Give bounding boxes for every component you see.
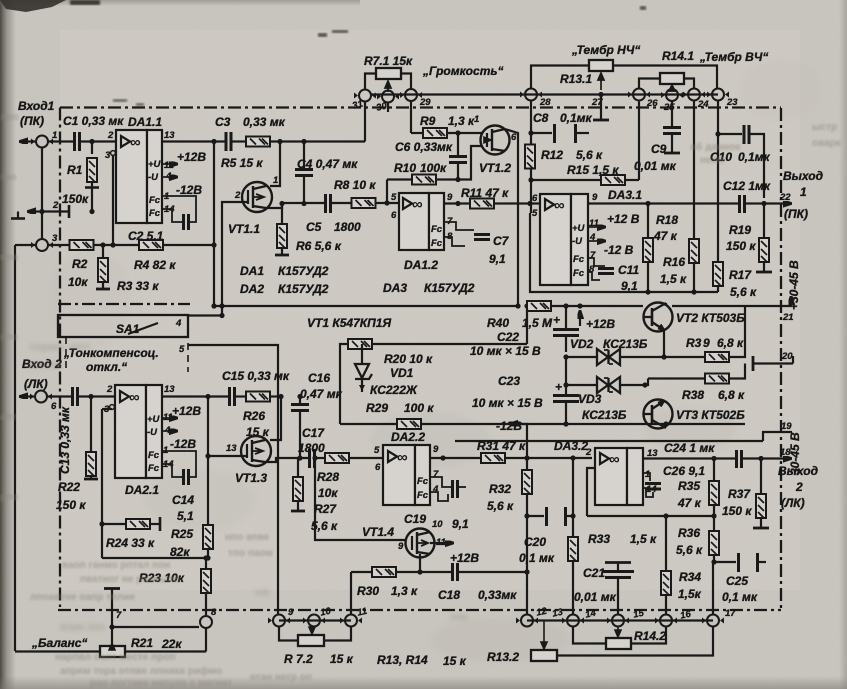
svg-text:C5: C5 <box>306 220 322 234</box>
svg-text:8: 8 <box>211 607 217 618</box>
dash-dot segment above SA1 <box>58 303 190 305</box>
svg-text:23: 23 <box>726 97 738 108</box>
capacitor C11 correction <box>588 258 639 293</box>
svg-text:6: 6 <box>375 462 381 473</box>
svg-text:0,47 мк: 0,47 мк <box>300 387 343 401</box>
svg-text:„Тембр ВЧ“: „Тембр ВЧ“ <box>699 50 768 64</box>
svg-text:2: 2 <box>106 384 113 395</box>
svg-text:R12: R12 <box>541 148 563 162</box>
svg-text:R14.2: R14.2 <box>634 629 666 643</box>
svg-text:К157УД2: К157УД2 <box>278 282 329 296</box>
svg-text:47 к: 47 к <box>677 496 702 510</box>
svg-text:R28: R28 <box>317 470 339 484</box>
wire VT2 emitter down <box>650 330 705 357</box>
svg-text:R14.1: R14.1 <box>662 49 694 63</box>
node R33 top <box>570 455 575 460</box>
terminal 19 <box>455 421 792 441</box>
capacitor C18 <box>438 563 517 602</box>
svg-text:5: 5 <box>374 445 380 456</box>
resistor R20 <box>348 339 433 366</box>
wire terminal30 stub <box>387 103 389 112</box>
svg-text:0,1мк: 0,1мк <box>738 150 771 164</box>
capacitor C9 <box>634 128 681 174</box>
svg-text:Fc: Fc <box>149 208 161 219</box>
node C8 tap <box>528 130 533 135</box>
wire DA2.2 out row <box>430 457 592 459</box>
svg-text:C22: C22 <box>497 330 519 344</box>
resistor R4 <box>134 240 176 272</box>
svg-text:2: 2 <box>234 190 241 201</box>
terminal 7 stub <box>104 589 199 644</box>
svg-text:C20: C20 <box>524 535 546 549</box>
svg-text:6: 6 <box>511 132 517 143</box>
node DA3.1 input <box>527 201 532 206</box>
wire VT1.3 drain drop <box>270 397 281 441</box>
svg-text:рло: рло <box>0 492 18 503</box>
wire left rail down to balance <box>14 245 16 651</box>
node R32 top <box>524 455 529 460</box>
op-amp DA3.2 <box>585 447 658 505</box>
resistor R12 <box>525 145 603 169</box>
wire balance row <box>15 629 206 652</box>
tone control network: C8 column <box>530 101 532 213</box>
node R35 top <box>711 456 716 461</box>
svg-text:6: 6 <box>51 401 57 412</box>
svg-text:10к: 10к <box>68 275 88 289</box>
dash-dot enclosure top edge <box>58 108 781 611</box>
svg-text:22к: 22к <box>161 637 182 651</box>
resistor R6 <box>275 203 342 255</box>
svg-text:R16: R16 <box>663 255 685 269</box>
svg-text:1: 1 <box>52 130 57 141</box>
svg-text:Выход: Выход <box>778 464 818 478</box>
svg-text:DA3.1: DA3.1 <box>608 188 642 202</box>
svg-text:C11: C11 <box>618 263 639 277</box>
svg-text:R20 10 к: R20 10 к <box>384 352 433 366</box>
svg-text:0,1 мк: 0,1 мк <box>722 590 758 604</box>
svg-text:5: 5 <box>532 208 538 219</box>
svg-text:VT2 КТ503Б: VT2 КТ503Б <box>676 311 745 325</box>
svg-text:R9: R9 <box>420 114 436 128</box>
svg-text:VD1: VD1 <box>390 366 414 380</box>
svg-text:апрем тора отпве лпника рифмо: апрем тора отпве лпника рифмо <box>60 665 222 677</box>
svg-text:Fc: Fc <box>148 450 160 461</box>
potentiometer R7.2 <box>284 627 354 666</box>
wire feedback bottom rail <box>102 557 206 559</box>
svg-text:нелп: нелп <box>700 155 724 166</box>
wire terminal24 column to R16 <box>693 102 695 240</box>
wire R34 column <box>665 516 667 571</box>
svg-text:К157УД2: К157УД2 <box>424 281 475 295</box>
wire C18 row <box>351 572 526 614</box>
svg-text:апт: апт <box>0 412 17 423</box>
wire terminal23 column to R17 <box>717 101 719 263</box>
resistor R34 <box>661 570 702 614</box>
svg-text:5,1: 5,1 <box>177 509 194 523</box>
wire R10 row <box>387 180 458 204</box>
svg-text:„Громкость“: „Громкость“ <box>422 64 503 78</box>
svg-text:15 к: 15 к <box>443 654 467 668</box>
wire bottom connector row <box>279 619 351 621</box>
svg-text:7: 7 <box>590 250 596 261</box>
terminal 11 <box>340 606 368 627</box>
transistor VT2 <box>643 303 745 332</box>
svg-text:R4 82 к: R4 82 к <box>134 258 176 272</box>
svg-text:VD2: VD2 <box>570 337 594 351</box>
svg-text:R6 5,6 к: R6 5,6 к <box>296 239 342 253</box>
svg-text:150 к: 150 к <box>726 239 756 253</box>
transistor VT1.4 <box>362 519 446 558</box>
svg-text:-12В: -12В <box>176 183 202 197</box>
svg-text:R18: R18 <box>656 213 678 227</box>
node DA2.2 out <box>440 455 445 460</box>
svg-text:+U: +U <box>148 159 162 170</box>
svg-text:3: 3 <box>52 233 58 244</box>
svg-text:2: 2 <box>795 480 803 494</box>
svg-text:-U: -U <box>572 236 583 247</box>
svg-text:впа: впа <box>0 252 18 263</box>
svg-text:R26: R26 <box>243 409 265 423</box>
resistor R40 <box>487 301 553 330</box>
node R26 out <box>278 394 283 399</box>
svg-text:∞: ∞ <box>412 196 423 213</box>
svg-text:1: 1 <box>474 114 479 125</box>
wire DA3.2 output row <box>643 457 762 459</box>
terminal 3 <box>31 233 58 251</box>
svg-text:1: 1 <box>273 175 278 186</box>
terminal 28 <box>520 89 551 109</box>
svg-text:Fc: Fc <box>417 476 429 487</box>
svg-text:SA1: SA1 <box>116 322 140 336</box>
svg-text:+12В: +12В <box>450 551 479 565</box>
svg-text:4: 4 <box>175 318 182 329</box>
capacitor C25 <box>714 553 766 604</box>
svg-text:9: 9 <box>703 336 710 350</box>
page scan marks top-left <box>0 0 66 12</box>
capacitor C15 <box>222 369 290 406</box>
wire DA1.1 pin3 column <box>112 155 114 245</box>
svg-text:17: 17 <box>725 608 736 619</box>
svg-text:+: + <box>555 380 562 394</box>
svg-text:-U: -U <box>148 172 159 183</box>
potentiometer R14.2 <box>606 627 666 649</box>
node R9-C6 <box>455 130 460 135</box>
capacitor C22 polarized <box>470 306 579 358</box>
node C25 left <box>711 559 716 564</box>
op-amp DA2.1 <box>104 384 175 497</box>
svg-text:DA2.1: DA2.1 <box>125 483 159 497</box>
resistor R35 <box>677 459 719 517</box>
svg-text:0,01 мк: 0,01 мк <box>574 590 617 604</box>
output 1 terminal 22 <box>764 169 823 221</box>
svg-text:6: 6 <box>532 193 538 204</box>
svg-text:0,33 мк: 0,33 мк <box>243 115 286 129</box>
paper stains (decorative) <box>50 60 820 662</box>
output 2 terminal 18 <box>761 447 818 510</box>
svg-text:0,33мк: 0,33мк <box>478 588 517 602</box>
terminal 13 <box>551 607 584 627</box>
svg-text:DA1.2: DA1.2 <box>404 258 438 272</box>
svg-text:DA3: DA3 <box>383 281 407 295</box>
node DA2.1 out R25 <box>205 394 210 399</box>
svg-text:1800: 1800 <box>298 441 325 455</box>
terminal 9 <box>268 607 294 627</box>
node C13-R22 <box>88 394 93 399</box>
wire R32 column down to C18 row and terminal 12 <box>526 516 528 572</box>
svg-text:об данное: об данное <box>690 141 741 153</box>
svg-text:22: 22 <box>779 192 791 203</box>
svg-text:R10: R10 <box>394 161 416 175</box>
wire input2 signal row <box>48 395 116 397</box>
dash-dot enclosure bottom edge <box>58 609 781 611</box>
terminal 16 <box>679 609 724 627</box>
svg-text:+12В: +12В <box>586 317 615 331</box>
input 2 connector group <box>21 357 62 412</box>
op-amp DA2.2 <box>374 430 439 505</box>
wire R13.1 left leg <box>531 66 589 89</box>
capacitor C10 <box>710 125 771 198</box>
svg-text:28: 28 <box>539 97 551 108</box>
svg-text:R15 1,5 к: R15 1,5 к <box>567 163 619 177</box>
svg-text:(ЛК): (ЛК) <box>24 377 48 391</box>
resistor R33 <box>568 532 657 614</box>
svg-text:∞: ∞ <box>397 449 408 466</box>
potentiometer R13.1 <box>560 60 613 90</box>
svg-text:100к: 100к <box>420 161 447 175</box>
svg-text:DA2.2: DA2.2 <box>391 430 425 444</box>
svg-text:47 к: 47 к <box>653 229 678 243</box>
svg-text:DA1: DA1 <box>240 264 264 278</box>
svg-text:21: 21 <box>782 312 794 323</box>
svg-text:∞: ∞ <box>129 389 140 406</box>
wire DA2.1 pin3 column <box>101 409 103 558</box>
svg-text:9,1: 9,1 <box>452 517 469 531</box>
svg-text:9: 9 <box>447 192 453 203</box>
svg-text:C21: C21 <box>583 566 605 580</box>
terminal 29 <box>400 89 431 108</box>
svg-text:1800: 1800 <box>334 220 361 234</box>
wire DA3.1 output row <box>588 202 762 204</box>
node C6 bottom <box>455 177 460 182</box>
svg-text:Вход1: Вход1 <box>18 99 55 113</box>
node DA3.1 out <box>645 201 650 206</box>
capacitor C17 <box>298 426 325 468</box>
svg-text:C12 1мк: C12 1мк <box>723 179 771 193</box>
svg-text:1,3 к: 1,3 к <box>391 584 418 598</box>
svg-text:Fc: Fc <box>573 268 585 279</box>
wire VT1.2 drain to +12 rail <box>505 129 518 306</box>
wire DA3.1 input loop <box>530 213 648 292</box>
svg-text:R22: R22 <box>58 480 80 494</box>
svg-text:гро: гро <box>0 172 16 183</box>
wire R13.2 right leg <box>557 627 713 656</box>
resistor R24 <box>106 519 155 550</box>
svg-text:лпк: лпк <box>450 612 468 623</box>
svg-text:Fc: Fc <box>431 238 443 249</box>
svg-text:Fc: Fc <box>148 463 160 474</box>
svg-text:+12В: +12В <box>177 150 206 164</box>
node C4 bottom <box>301 201 306 206</box>
switch SA1 box <box>58 313 225 355</box>
wire VT1.1 source row y203 <box>266 203 399 208</box>
svg-text:150к: 150к <box>62 192 89 206</box>
resistor R1 <box>62 142 99 212</box>
svg-text:R34: R34 <box>679 570 701 584</box>
op-amp DA3.1 <box>532 188 642 285</box>
svg-text:Fc: Fc <box>417 490 429 501</box>
resistor R9 <box>420 114 475 138</box>
svg-text:0,01 мк: 0,01 мк <box>634 159 677 173</box>
svg-text:-U: -U <box>147 427 158 438</box>
capacitor C1 <box>63 114 124 151</box>
power label -12V for DA3.1 <box>588 241 634 257</box>
terminal 15 <box>632 608 677 627</box>
svg-text:VT1.2: VT1.2 <box>479 161 511 175</box>
wire input1 arrow <box>21 140 35 142</box>
svg-text:VT1 К547КП1Я: VT1 К547КП1Я <box>307 316 391 330</box>
wire terminal28 column <box>530 101 532 145</box>
resistor R5 <box>221 137 270 171</box>
svg-text:18: 18 <box>780 447 791 458</box>
node R2-R3 <box>100 242 105 247</box>
svg-text:R24 33 к: R24 33 к <box>106 536 155 550</box>
capacitor C23 polarized <box>472 354 579 424</box>
resistor R16 <box>660 239 699 292</box>
wire R20 row <box>340 308 527 424</box>
transistor VT1.1 <box>228 175 278 236</box>
node R12-R15 <box>528 177 533 182</box>
terminal 26 <box>628 89 658 110</box>
resistor R17 <box>713 262 757 299</box>
svg-text:6: 6 <box>391 210 397 221</box>
svg-text:лпо: лпо <box>0 112 19 123</box>
node output2 <box>758 456 763 461</box>
svg-text:КС213Б: КС213Б <box>603 337 648 351</box>
wire DA2.1 output row <box>162 395 281 397</box>
svg-text:нпо апве: нпо апве <box>225 532 270 543</box>
wire DA1.2 output row <box>444 202 540 204</box>
svg-text:-12В: -12В <box>496 419 522 433</box>
wire R7.1 right leg <box>401 74 411 90</box>
svg-text:R5 15 к: R5 15 к <box>221 156 263 170</box>
terminal 30 <box>375 91 399 114</box>
node C10 tap <box>715 131 720 136</box>
resistor R18 <box>643 204 678 293</box>
power label +12V for DA2.1 <box>162 404 201 418</box>
svg-text:рао логтике напуло с магнит: рао логтике напуло с магнит <box>90 678 232 689</box>
svg-text:(ПК): (ПК) <box>20 114 44 128</box>
capacitor C7 correction <box>444 222 510 266</box>
svg-text:10 мк × 15 В: 10 мк × 15 В <box>470 344 541 358</box>
svg-text:∞: ∞ <box>554 197 565 214</box>
power label -12V for DA1.1 <box>162 177 202 197</box>
svg-text:13: 13 <box>164 384 175 395</box>
svg-text:∞: ∞ <box>130 134 141 151</box>
svg-text:R19: R19 <box>729 223 751 237</box>
svg-text:Выход: Выход <box>783 169 823 183</box>
node R6 top <box>279 201 284 206</box>
wire +12V rail <box>214 305 745 307</box>
power label +12V for VT1.4 <box>430 543 479 565</box>
node output1 <box>761 201 766 206</box>
zener VD3 bidirectional <box>566 377 645 393</box>
svg-text:2: 2 <box>107 130 114 141</box>
transistor VT3 <box>643 400 745 429</box>
svg-text:10: 10 <box>432 519 443 530</box>
svg-text:оварк: оварк <box>812 138 842 149</box>
svg-text:2: 2 <box>585 447 592 458</box>
svg-text:1: 1 <box>800 185 807 199</box>
power label +12V arrow <box>577 303 615 331</box>
svg-text:100 к: 100 к <box>404 401 434 415</box>
svg-text:26: 26 <box>646 98 658 109</box>
power label +12V for DA1.1 <box>162 150 206 164</box>
svg-text:6,8 к: 6,8 к <box>717 336 744 350</box>
node DA1.2 out <box>455 201 460 206</box>
svg-text:пватиог не рапкыло: пватиог не рапкыло <box>80 574 180 585</box>
node C22 top <box>563 303 568 308</box>
svg-text:R33: R33 <box>588 532 610 546</box>
wire DA3.2 input loop <box>587 468 595 516</box>
svg-text:29: 29 <box>419 97 431 108</box>
potentiometer R14.1 <box>660 49 694 91</box>
wire input2 arrow <box>21 395 34 397</box>
wire feedback row y516 <box>587 515 714 517</box>
svg-text:+: + <box>553 313 560 327</box>
svg-text:+30-45 В: +30-45 В <box>787 260 801 310</box>
svg-text:КС213Б: КС213Б <box>582 408 627 422</box>
svg-text:11: 11 <box>164 160 174 171</box>
svg-text:впеатн: впеатн <box>28 360 62 371</box>
svg-text:C4 0,47 мк: C4 0,47 мк <box>297 157 358 171</box>
capacitor C24 <box>737 450 742 468</box>
ground row terminal 2 <box>11 200 95 219</box>
svg-text:R29: R29 <box>366 401 388 415</box>
dashed linkage to tone switch label <box>66 337 188 372</box>
terminal 12 <box>516 606 549 627</box>
capacitor C5 <box>306 194 361 234</box>
svg-text:R25: R25 <box>171 527 193 541</box>
svg-text:нарпвл оапт месте лроп: нарпвл оапт месте лроп <box>55 652 176 663</box>
capacitor C19 correction <box>404 477 469 531</box>
svg-text:19: 19 <box>781 421 792 432</box>
terminal 10 <box>303 606 333 627</box>
potentiometer R13.2 <box>487 622 557 665</box>
zener VD1 <box>355 344 418 397</box>
svg-text:откл.“: откл.“ <box>86 360 127 374</box>
capacitor C21 <box>574 563 634 615</box>
resistor R37 <box>722 459 769 529</box>
svg-text:R37: R37 <box>728 487 751 501</box>
resistor R27 <box>311 502 338 533</box>
svg-text:1,5 к: 1,5 к <box>660 272 687 286</box>
node R13.1 wiper on row <box>598 92 603 97</box>
svg-text:R8 10 к: R8 10 к <box>334 178 376 192</box>
svg-text:R13, R14: R13, R14 <box>377 653 428 667</box>
svg-text:C6 0,33мк: C6 0,33мк <box>395 140 453 154</box>
capacitor C13 <box>58 387 78 474</box>
resistor R2 <box>68 240 94 289</box>
svg-text:VD3: VD3 <box>578 392 602 406</box>
svg-text:R21: R21 <box>131 636 153 650</box>
dash-dot enclosure left edge <box>59 108 61 608</box>
resistor R3 <box>96 245 159 293</box>
svg-text:КС222Ж: КС222Ж <box>370 383 418 397</box>
svg-text:(ЛК): (ЛК) <box>781 496 805 510</box>
wire feedback row y245 <box>15 244 214 246</box>
wire R36 column to terminal 16 <box>712 562 714 614</box>
terminal 6 <box>30 391 52 403</box>
